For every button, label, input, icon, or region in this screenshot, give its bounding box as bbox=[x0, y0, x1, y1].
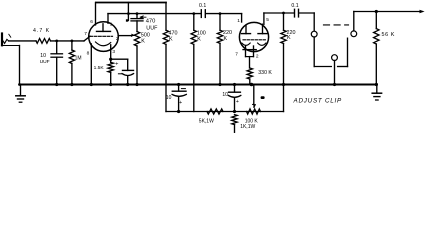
V2 cathodes bbox=[235, 43, 266, 59]
junction R3 bus bbox=[109, 83, 112, 86]
svg-text:3: 3 bbox=[112, 49, 115, 55]
resistor R3 1.5K bbox=[94, 59, 114, 84]
svg-text:5: 5 bbox=[266, 17, 269, 23]
resistor R5 470K bbox=[163, 3, 177, 112]
svg-text:K: K bbox=[287, 35, 291, 41]
junction C7 bus bbox=[233, 83, 236, 86]
capacitor C1 10 UUF bbox=[40, 41, 63, 85]
V1 pin 8 cathode lead bbox=[90, 44, 92, 85]
wire R1 to grid node bbox=[51, 40, 85, 42]
svg-text:1.5K: 1.5K bbox=[94, 65, 105, 71]
wire V1 plate line bbox=[108, 13, 201, 15]
svg-text:+: + bbox=[236, 99, 239, 105]
junction cathode node bbox=[109, 58, 112, 61]
tube V1 envelope bbox=[89, 22, 119, 52]
V2 grid dashes bbox=[243, 39, 266, 41]
V1 pin 6 plate lead bbox=[95, 3, 97, 25]
wire V2 plate to C5 bbox=[264, 12, 294, 14]
junction circle3 bus bbox=[333, 83, 336, 86]
svg-text:1K,1W: 1K,1W bbox=[240, 124, 255, 130]
resistor R7 220K bbox=[217, 14, 232, 85]
junction C6 bus bbox=[177, 83, 180, 86]
junction C1 bus bbox=[55, 83, 58, 86]
V1 cathode bbox=[96, 42, 111, 46]
junction C6 rail bbox=[177, 110, 180, 113]
junction C2 bus bbox=[126, 83, 129, 86]
svg-text:2: 2 bbox=[256, 53, 259, 59]
junction R8 bus bbox=[250, 83, 254, 87]
junction R10 top bbox=[375, 10, 378, 13]
resistor R9 220K bbox=[281, 13, 296, 112]
junction R2 bus bbox=[70, 83, 73, 86]
svg-text:1: 1 bbox=[237, 18, 240, 24]
svg-text:+: + bbox=[179, 100, 182, 106]
svg-text:UUF: UUF bbox=[146, 25, 158, 31]
junction C3 top bbox=[136, 12, 139, 15]
terminal circle 1 bbox=[311, 31, 317, 37]
svg-text:8: 8 bbox=[87, 50, 90, 56]
input jack J1 (phone plug) bbox=[2, 34, 20, 46]
wire circle1 bottom bracket bbox=[313, 37, 315, 67]
junction R2 top bbox=[71, 40, 74, 43]
wire input to grid bbox=[84, 36, 90, 41]
svg-text:7: 7 bbox=[235, 51, 238, 57]
wire after C4 bbox=[206, 13, 242, 15]
capacitor C4 0.1 bbox=[199, 3, 206, 17]
junction R9 top bbox=[282, 12, 285, 15]
dashed mechanical link bbox=[324, 24, 349, 26]
potentiometer R4 500K bbox=[132, 32, 150, 85]
svg-text:+: + bbox=[115, 61, 118, 67]
capacitor C2 cathode bypass bbox=[115, 59, 133, 84]
terminal circle 2 bbox=[351, 31, 357, 37]
svg-text:K: K bbox=[169, 37, 173, 43]
wire cathode to C2 bbox=[111, 58, 128, 60]
svg-text:UUF: UUF bbox=[40, 59, 50, 65]
svg-text:5K,1W: 5K,1W bbox=[199, 118, 214, 124]
svg-text:K: K bbox=[141, 39, 145, 45]
svg-text:10: 10 bbox=[222, 92, 228, 98]
svg-text:ADJUST CLIP: ADJUST CLIP bbox=[293, 98, 343, 105]
resistor R1 4.7K bbox=[33, 28, 51, 43]
junction R7 top bbox=[219, 12, 222, 15]
junction R6 top bbox=[192, 12, 195, 15]
capacitor C6 10uF bbox=[166, 85, 187, 112]
svg-text:K: K bbox=[224, 36, 228, 42]
svg-text:1M: 1M bbox=[75, 56, 82, 62]
resistor R2 1M bbox=[69, 41, 81, 85]
svg-text:470: 470 bbox=[146, 19, 156, 25]
wire circle3 to bus bbox=[334, 61, 336, 85]
node input grid line bbox=[55, 40, 58, 43]
wire jack sleeve to ground bus bbox=[19, 46, 21, 85]
junction pin8 bus bbox=[90, 83, 93, 86]
V1 pin 1 plate lead bbox=[107, 14, 109, 24]
svg-text:K: K bbox=[197, 37, 201, 43]
V1 pin 3 cathode lead bbox=[110, 45, 112, 59]
capacitor C3 470 UUF bbox=[131, 14, 158, 32]
svg-text:10: 10 bbox=[40, 53, 46, 59]
wire circle2 riser bbox=[353, 12, 355, 31]
capacitor C5 0.1 bbox=[291, 3, 298, 17]
V1 pin 2 wire to pot wiper bbox=[118, 35, 132, 37]
resistor R10 56K bbox=[374, 12, 395, 85]
svg-text:0.1: 0.1 bbox=[199, 3, 206, 9]
wire C5 to jack bbox=[299, 12, 314, 14]
wire V2 cathode to R8 bbox=[249, 57, 251, 68]
resistor R8 330K bbox=[247, 68, 272, 85]
V2 plate 2 (pin 5) bbox=[262, 24, 264, 33]
capacitor C7 10uF bbox=[222, 85, 240, 112]
svg-text:10: 10 bbox=[166, 95, 172, 101]
junction R9 bus bbox=[282, 83, 285, 86]
ground right bbox=[372, 85, 381, 101]
wire ground bus bbox=[20, 84, 378, 86]
V2 plate 1 bbox=[245, 25, 247, 33]
ink mark near adjust bbox=[261, 96, 265, 99]
junction R7 bus bbox=[218, 83, 221, 86]
V1 plate bbox=[102, 24, 104, 32]
resistor R6 100K bbox=[191, 14, 206, 112]
junction R4 bus bbox=[135, 83, 138, 86]
junction C7 rail bbox=[233, 110, 236, 113]
potentiometer R12 100K bbox=[245, 85, 261, 124]
junction bus left end bbox=[18, 83, 21, 86]
resistor R11 5K 1W bbox=[199, 109, 223, 125]
svg-text:1: 1 bbox=[110, 21, 113, 27]
terminal circle 3 bbox=[332, 55, 338, 61]
wire rail stub at x128 bbox=[127, 3, 129, 21]
V1 grid (pin 7) bbox=[84, 31, 112, 37]
wire bias rail bbox=[166, 111, 284, 113]
V2 pin 1 lead bbox=[241, 14, 243, 22]
svg-text:2: 2 bbox=[116, 36, 119, 42]
svg-text:0.1: 0.1 bbox=[291, 3, 298, 9]
svg-text:4.7 K: 4.7 K bbox=[33, 28, 50, 34]
svg-text:330 K: 330 K bbox=[258, 70, 272, 76]
junction R10 bus bbox=[375, 83, 378, 86]
junction rail stub on plate wire bbox=[127, 12, 130, 15]
svg-text:7: 7 bbox=[84, 31, 87, 37]
arrowhead B+ bbox=[420, 10, 425, 14]
ground left bbox=[16, 85, 25, 103]
wire jack tip to R1 bbox=[9, 40, 36, 42]
wire top rail bbox=[96, 2, 166, 4]
resistor R13 1K 1W bbox=[232, 115, 256, 133]
svg-text:6: 6 bbox=[90, 19, 93, 25]
svg-text:56 K: 56 K bbox=[382, 32, 396, 38]
wire output rail bbox=[354, 11, 421, 13]
tube V2 envelope bbox=[239, 22, 268, 51]
